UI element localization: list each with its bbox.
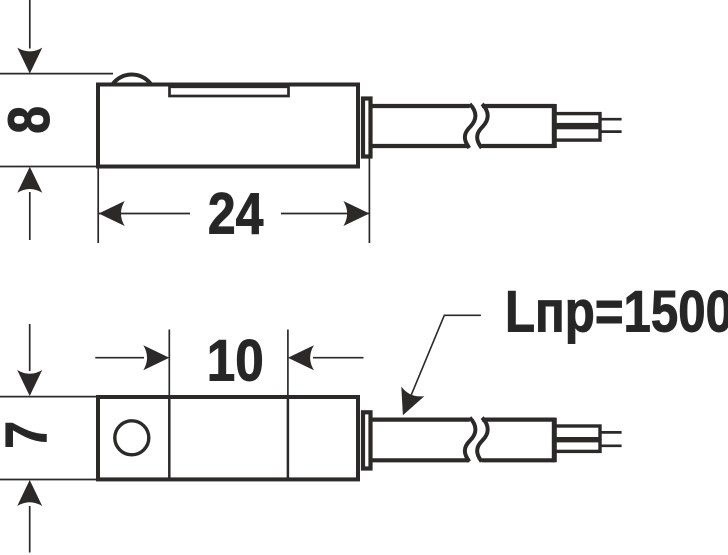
cable end cap (bottom view)	[552, 418, 557, 463]
dim 8: upper dimension line	[29, 0, 31, 49]
dim 24: left arrowhead	[99, 201, 125, 226]
dim 10: left arrowhead	[143, 345, 169, 370]
dim 7: top extension line	[0, 396, 97, 398]
bare conductor lower (bottom view)	[600, 444, 622, 447]
cable stub (top view)	[363, 99, 371, 157]
dim 24: right extension line	[368, 157, 370, 243]
cable segment 1 bottom line (bottom view)	[372, 458, 470, 462]
svg-text:10: 10	[207, 329, 264, 394]
sensor body (top view)	[98, 85, 358, 167]
svg-text:Lпр=1500: Lпр=1500	[505, 280, 728, 345]
leader line for cable length	[408, 315, 481, 404]
cable stub (bottom view)	[363, 412, 371, 468]
wire insulation lower (bottom view)	[555, 441, 601, 452]
wire insulation lower (top view)	[555, 128, 601, 141]
bare conductor lower (top view)	[600, 130, 622, 133]
cable segment 2 bottom line (bottom view)	[482, 458, 555, 462]
dim 7: upper dimension line	[29, 324, 31, 371]
cable break curve right (bottom view)	[477, 418, 488, 462]
compartment divider right	[287, 397, 290, 479]
dim 24: right line segment	[281, 213, 369, 215]
bare conductor upper (bottom view)	[600, 431, 622, 434]
dim 7: upper arrowhead	[17, 370, 42, 396]
dim 8: lower arrowhead	[17, 167, 42, 193]
dim 7: bottom extension line	[0, 479, 97, 481]
bare conductor upper (top view)	[600, 118, 622, 121]
mounting hole circle	[115, 421, 149, 455]
cable segment 2 top line (bottom view)	[482, 418, 555, 422]
dim 10: right arrowhead	[288, 345, 314, 370]
svg-text:24: 24	[208, 182, 264, 247]
dim 8: top extension line	[0, 73, 113, 75]
dim 10: right arrow tail	[313, 357, 364, 359]
cable segment 1 top line	[371, 104, 470, 108]
svg-text:8: 8	[0, 106, 62, 134]
sensor body (bottom view)	[98, 397, 358, 479]
wire insulation upper (bottom view)	[555, 426, 601, 439]
cable segment 1 bottom line	[371, 144, 469, 148]
svg-text:7: 7	[0, 421, 59, 449]
cable segment 1 top line (bottom view)	[372, 418, 470, 422]
compartment divider left	[168, 397, 171, 479]
dim 8: lower dimension line	[29, 192, 31, 240]
dim 7: lower arrowhead	[17, 480, 42, 506]
dim 7: lower dimension line	[29, 506, 31, 553]
leader arrowhead	[391, 386, 424, 420]
dim 10: left extension line	[168, 330, 170, 398]
dim 10: left arrow tail	[95, 357, 144, 359]
dim 8: upper arrowhead	[17, 48, 42, 74]
dim 24: left extension line	[97, 169, 99, 244]
top recess notch	[170, 87, 289, 96]
dim 8: bottom extension line	[0, 166, 97, 168]
cable break curve left (bottom view)	[465, 418, 476, 462]
cable end cap	[552, 104, 557, 148]
cable break curve left	[465, 104, 476, 148]
cable break curve right	[477, 104, 488, 148]
dim 10: right extension line	[287, 330, 289, 398]
wire insulation upper (top view)	[555, 114, 601, 125]
dim 24: left line segment	[99, 213, 190, 215]
arc bump on body top	[113, 74, 152, 84]
cable segment 2 top line	[482, 104, 555, 108]
dim 24: right arrowhead	[343, 201, 369, 226]
cable segment 2 bottom line	[482, 144, 555, 148]
